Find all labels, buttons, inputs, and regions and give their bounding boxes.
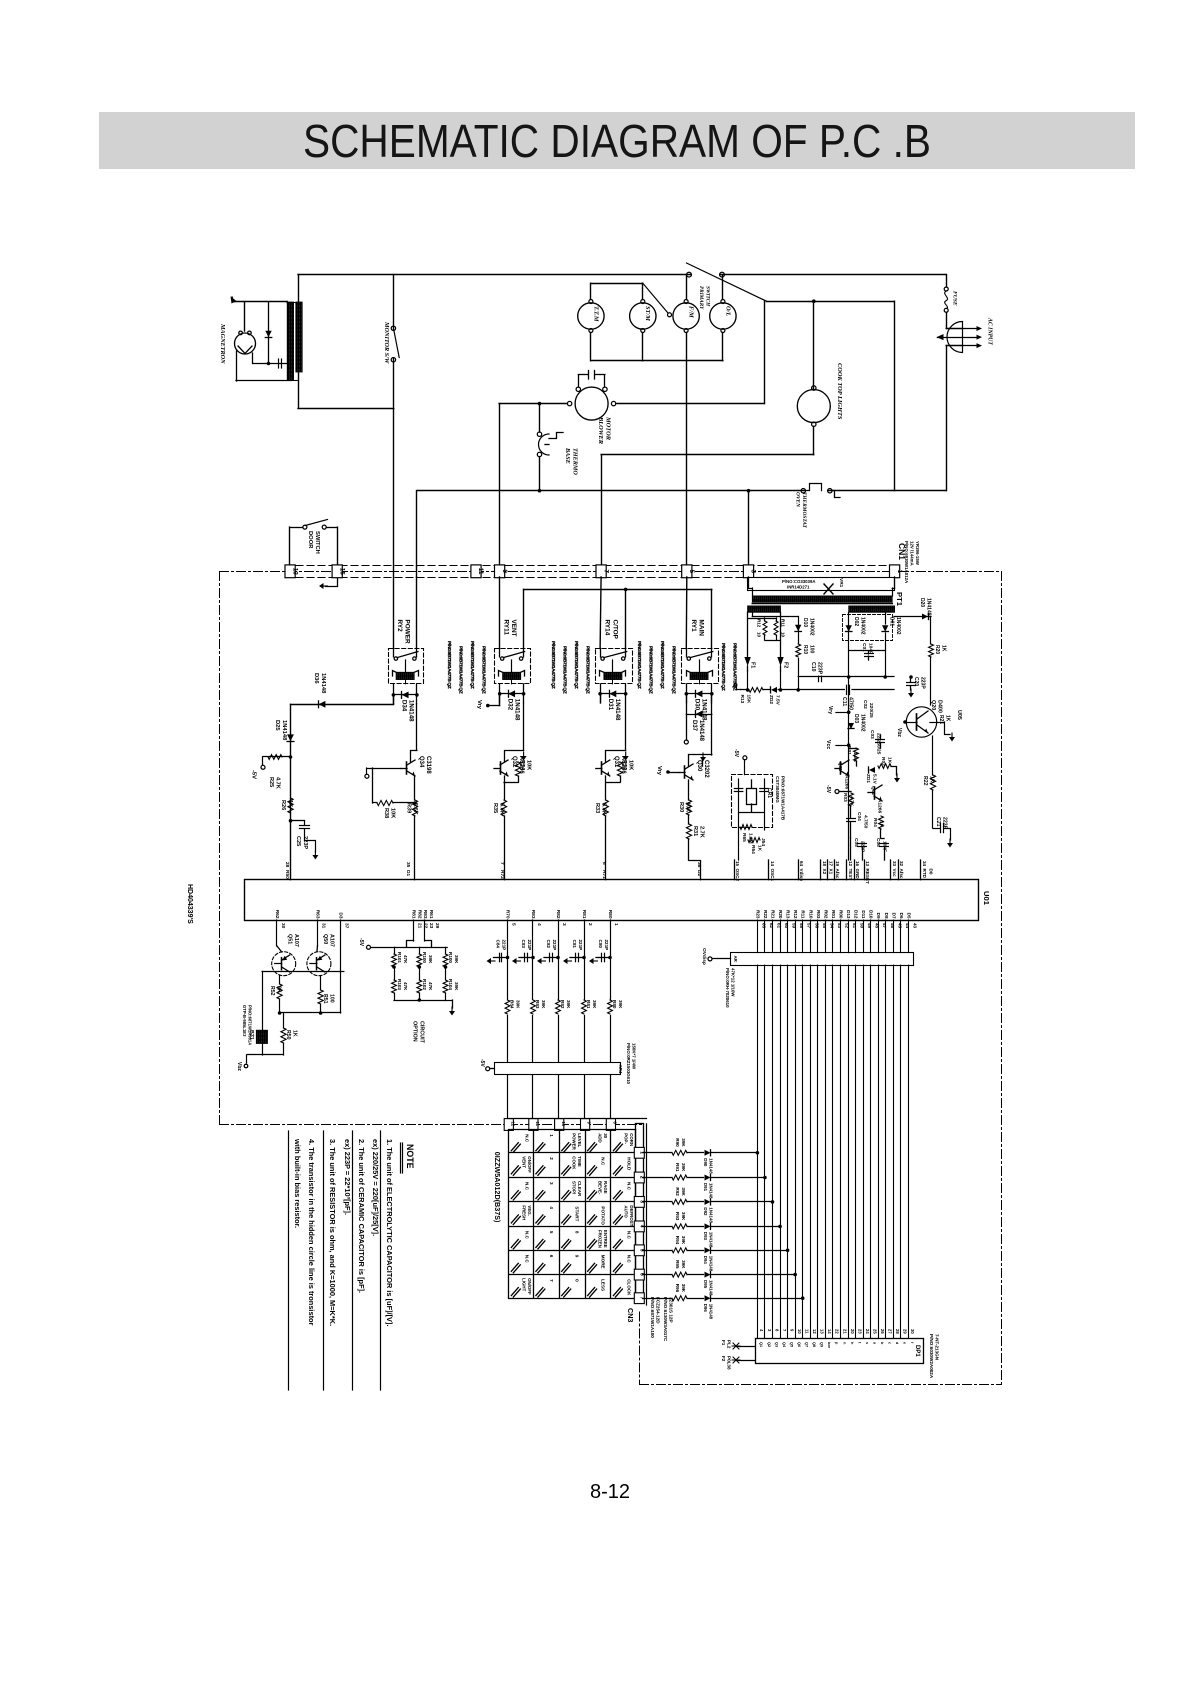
svg-text:C83: C83 xyxy=(521,940,526,949)
svg-text:30: 30 xyxy=(603,1133,608,1138)
svg-text:RAGE: RAGE xyxy=(603,1181,608,1194)
svg-text:47K: 47K xyxy=(403,955,408,964)
svg-text:N.C: N.C xyxy=(626,1255,631,1264)
svg-text:Q20: Q20 xyxy=(930,700,936,710)
svg-text:47K: 47K xyxy=(428,982,433,991)
svg-text:SWITCH: SWITCH xyxy=(705,286,711,307)
svg-text:1N4148: 1N4148 xyxy=(407,700,414,722)
svg-text:39K: 39K xyxy=(681,1260,686,1269)
svg-text:Q34: Q34 xyxy=(418,756,424,768)
svg-text:R102: R102 xyxy=(422,979,427,990)
svg-text:D10: D10 xyxy=(802,618,808,627)
svg-text:30: 30 xyxy=(910,1329,915,1334)
svg-text:FRESH: FRESH xyxy=(521,1205,526,1220)
svg-text:1K: 1K xyxy=(292,1030,298,1037)
svg-text:R20: R20 xyxy=(934,645,940,654)
svg-text:10: 10 xyxy=(781,632,786,638)
svg-text:Q1: Q1 xyxy=(759,1342,763,1347)
svg-text:R101: R101 xyxy=(397,952,402,963)
svg-text:CST3040MG: CST3040MG xyxy=(775,776,780,803)
svg-text:P/N0:6B71W1A477B QZ: P/N0:6B71W1A477B QZ xyxy=(469,641,475,689)
svg-text:12: 12 xyxy=(848,861,853,867)
svg-text:12: 12 xyxy=(812,1329,817,1334)
svg-text:R84: R84 xyxy=(510,1000,515,1009)
svg-text:11: 11 xyxy=(477,568,484,575)
svg-text:2K: 2K xyxy=(276,986,282,993)
svg-text:with built-in bias resistor.: with built-in bias resistor. xyxy=(293,1138,302,1228)
svg-text:T.T.M: T.T.M xyxy=(592,306,599,322)
svg-text:37: 37 xyxy=(344,923,350,929)
svg-text:ENTREE: ENTREE xyxy=(603,1230,608,1248)
svg-text:R35: R35 xyxy=(492,803,498,813)
svg-text:62: 62 xyxy=(769,923,774,929)
svg-text:R80: R80 xyxy=(612,1000,617,1009)
svg-text:12V /144mA: 12V /144mA xyxy=(910,541,915,566)
svg-text:LIGHT: LIGHT xyxy=(521,1278,526,1291)
svg-text:23: 23 xyxy=(428,923,434,929)
svg-text:-5V: -5V xyxy=(479,1059,485,1067)
svg-text:C11: C11 xyxy=(841,697,847,706)
svg-text:F1: F1 xyxy=(721,1340,726,1346)
svg-text:D37: D37 xyxy=(691,720,697,732)
svg-text:-5V: -5V xyxy=(251,770,257,779)
svg-text:Q02: Q02 xyxy=(870,786,876,795)
svg-text:3: 3 xyxy=(750,569,757,573)
svg-text:R80: R80 xyxy=(607,910,613,919)
svg-text:HOLD: HOLD xyxy=(626,1157,631,1171)
svg-text:1N4002: 1N4002 xyxy=(809,618,815,636)
svg-text:10K: 10K xyxy=(628,760,634,770)
svg-text:R82: R82 xyxy=(560,1000,565,1009)
svg-text:CIRCUIT: CIRCUIT xyxy=(419,1021,425,1044)
svg-text:Q6: Q6 xyxy=(797,1342,801,1347)
svg-text:11: 11 xyxy=(535,1122,540,1127)
svg-text:SCHEMATIC DIAGRAM OF P.C .B: SCHEMATIC DIAGRAM OF P.C .B xyxy=(303,115,931,167)
svg-text:C20: C20 xyxy=(913,677,919,686)
svg-text:R72: R72 xyxy=(499,870,505,879)
svg-text:Vbz: Vbz xyxy=(896,728,902,737)
svg-text:R83: R83 xyxy=(422,910,428,919)
svg-text:10K: 10K xyxy=(685,802,691,812)
svg-text:39K: 39K xyxy=(454,955,459,964)
svg-text:1N4148: 1N4148 xyxy=(709,1158,714,1174)
svg-text:P/N0:6B71W1A477B QZ: P/N0:6B71W1A477B QZ xyxy=(458,646,464,694)
svg-text:10: 10 xyxy=(561,1122,566,1127)
svg-text:ex) 223P = 22*10³[pF].: ex) 223P = 22*10³[pF]. xyxy=(343,1139,352,1215)
svg-text:2: 2 xyxy=(549,1157,554,1160)
svg-text:15: 15 xyxy=(735,861,740,867)
svg-text:D8: D8 xyxy=(884,913,889,919)
svg-text:R92: R92 xyxy=(675,1187,680,1196)
svg-text:R03: R03 xyxy=(842,793,848,802)
svg-text:P/NO:6871W1A100: P/NO:6871W1A100 xyxy=(650,1297,655,1338)
svg-text:ZD2: ZD2 xyxy=(768,695,774,704)
svg-text:FCZ254-12D: FCZ254-12D xyxy=(656,1297,661,1324)
svg-text:21: 21 xyxy=(417,923,423,929)
svg-text:1N4148: 1N4148 xyxy=(709,1304,714,1320)
svg-text:VEG.: VEG. xyxy=(527,1205,532,1216)
svg-text:5.6K: 5.6K xyxy=(499,803,505,815)
svg-text:P/N0:6B71W1A477B QZ: P/N0:6B71W1A477B QZ xyxy=(481,646,487,694)
svg-text:11: 11 xyxy=(805,1329,810,1334)
svg-text:39K: 39K xyxy=(681,1187,686,1196)
svg-text:R83: R83 xyxy=(535,1000,540,1009)
svg-text:N.C: N.C xyxy=(601,1157,606,1166)
svg-text:13: 13 xyxy=(865,861,870,867)
svg-text:5: 5 xyxy=(511,923,517,926)
svg-text:R82: R82 xyxy=(416,910,422,919)
svg-text:R02: R02 xyxy=(823,910,828,919)
svg-text:33: 33 xyxy=(892,861,897,867)
svg-text:Q30: Q30 xyxy=(696,760,702,772)
svg-text:34: 34 xyxy=(922,861,927,867)
svg-text:RY14: RY14 xyxy=(604,620,611,636)
svg-text:60: 60 xyxy=(784,923,789,929)
svg-text:R23: R23 xyxy=(755,910,760,919)
svg-text:1N4002: 1N4002 xyxy=(860,714,866,732)
svg-text:R93: R93 xyxy=(675,1212,680,1221)
svg-text:U01: U01 xyxy=(982,891,991,906)
svg-text:9: 9 xyxy=(575,1255,580,1258)
svg-text:CLEAR: CLEAR xyxy=(577,1181,582,1197)
svg-text:e: e xyxy=(903,1342,907,1344)
svg-text:26: 26 xyxy=(880,1329,885,1334)
svg-text:C10: C10 xyxy=(810,662,816,672)
svg-text:43: 43 xyxy=(912,923,917,929)
svg-text:C3198: C3198 xyxy=(425,756,431,774)
svg-text:1K: 1K xyxy=(929,776,935,783)
svg-text:ZD1: ZD1 xyxy=(865,774,871,783)
svg-text:RY2: RY2 xyxy=(396,620,403,633)
svg-text:Q3: Q3 xyxy=(774,1342,778,1347)
svg-text:F/M: F/M xyxy=(688,306,695,318)
svg-text:C06: C06 xyxy=(875,838,881,847)
svg-text:13: 13 xyxy=(291,568,298,576)
svg-text:Afsc: Afsc xyxy=(835,869,840,879)
svg-text:ON/OFF: ON/OFF xyxy=(527,1278,532,1295)
svg-text:13: 13 xyxy=(820,1329,825,1334)
svg-text:R10: R10 xyxy=(808,910,813,919)
svg-text:F2: F2 xyxy=(721,1356,726,1362)
svg-text:45: 45 xyxy=(897,923,902,929)
svg-text:Q8: Q8 xyxy=(812,1342,816,1347)
svg-text:s: s xyxy=(865,1342,869,1344)
svg-text:17: 17 xyxy=(829,861,834,867)
svg-text:R52: R52 xyxy=(269,986,275,996)
svg-text:R26: R26 xyxy=(280,800,286,810)
svg-text:R10: R10 xyxy=(802,645,808,654)
svg-text:RTD: RTD xyxy=(922,869,927,879)
svg-text:CLOCK: CLOCK xyxy=(626,1279,631,1296)
svg-text:2: 2 xyxy=(587,923,593,926)
svg-text:D11: D11 xyxy=(861,910,866,919)
svg-text:Q7: Q7 xyxy=(805,1342,809,1347)
svg-text:221P: 221P xyxy=(552,940,557,951)
svg-text:bor: bor xyxy=(827,1342,831,1349)
svg-text:6: 6 xyxy=(549,1255,554,1258)
svg-text:R90: R90 xyxy=(675,1138,680,1147)
svg-text:R31: R31 xyxy=(692,826,698,836)
svg-text:20: 20 xyxy=(850,1329,855,1334)
svg-text:D95: D95 xyxy=(703,1280,708,1289)
svg-text:THERMOSTAT: THERMOSTAT xyxy=(801,492,807,529)
svg-text:MOTOR: MOTOR xyxy=(605,416,612,441)
svg-text:R13: R13 xyxy=(786,910,791,919)
svg-text:Vry: Vry xyxy=(656,766,662,776)
svg-text:R63: R63 xyxy=(315,910,321,919)
svg-text:P/N0:6B71W1A477B QZ: P/N0:6B71W1A477B QZ xyxy=(573,641,579,689)
svg-text:1N4148: 1N4148 xyxy=(700,699,707,721)
svg-text:0: 0 xyxy=(575,1279,580,1282)
svg-text:39K: 39K xyxy=(618,1000,623,1009)
svg-text:P/N0:6B71W1A477B QZ: P/N0:6B71W1A477B QZ xyxy=(636,641,642,689)
svg-text:D92: D92 xyxy=(703,1207,708,1216)
svg-text:VENT: VENT xyxy=(521,1156,526,1168)
svg-text:R81: R81 xyxy=(581,910,587,919)
svg-text:C81: C81 xyxy=(572,940,577,949)
svg-text:29: 29 xyxy=(434,923,440,929)
svg-text:47K*12 1/10W: 47K*12 1/10W xyxy=(731,968,736,997)
svg-text:D30: D30 xyxy=(693,699,700,711)
svg-text:1N4002: 1N4002 xyxy=(860,617,866,635)
svg-text:14: 14 xyxy=(770,861,775,867)
svg-text:START: START xyxy=(575,1206,580,1221)
svg-text:49: 49 xyxy=(867,923,872,929)
svg-text:10: 10 xyxy=(797,1329,802,1334)
svg-text:Vry: Vry xyxy=(476,700,482,710)
svg-text:YR396-15W: YR396-15W xyxy=(915,541,920,566)
svg-text:39K: 39K xyxy=(681,1138,686,1147)
svg-text:4.7/50: 4.7/50 xyxy=(863,815,869,829)
svg-text:5.6K: 5.6K xyxy=(601,803,607,815)
svg-text:N.C: N.C xyxy=(626,1231,631,1240)
svg-text:C01: C01 xyxy=(861,643,867,652)
svg-text:D31: D31 xyxy=(607,699,614,711)
svg-text:MAIN: MAIN xyxy=(697,620,704,637)
svg-text:6: 6 xyxy=(601,862,607,865)
svg-text:R02: R02 xyxy=(880,757,886,766)
svg-text:D02: D02 xyxy=(853,617,859,626)
svg-text:PT1: PT1 xyxy=(895,592,904,607)
svg-text:12: 12 xyxy=(510,1122,515,1127)
svg-text:R64: R64 xyxy=(750,845,756,854)
svg-text:POP-: POP- xyxy=(623,1133,628,1144)
svg-text:29: 29 xyxy=(903,1329,908,1334)
svg-text:R32: R32 xyxy=(621,760,627,770)
svg-text:O/L: O/L xyxy=(724,306,731,316)
svg-text:R38: R38 xyxy=(383,808,389,818)
svg-text:AR: AR xyxy=(733,956,738,963)
svg-text:3: 3 xyxy=(561,923,567,926)
svg-text:1N4148: 1N4148 xyxy=(709,1256,714,1272)
svg-text:223P: 223P xyxy=(942,817,948,830)
svg-text:4: 4 xyxy=(549,1206,554,1209)
svg-text:MAGNETRON: MAGNETRON xyxy=(219,323,226,364)
svg-text:R50: R50 xyxy=(284,870,290,879)
svg-text:100: 100 xyxy=(329,994,335,1003)
svg-text:COOK TOP LIGHTS: COOK TOP LIGHTS xyxy=(836,363,843,420)
svg-text:D7: D7 xyxy=(891,913,896,919)
svg-text:1N4148: 1N4148 xyxy=(709,1232,714,1248)
svg-text:58: 58 xyxy=(799,923,804,929)
svg-text:1K: 1K xyxy=(941,645,947,652)
svg-text:5: 5 xyxy=(688,569,695,573)
svg-text:RY11: RY11 xyxy=(502,620,509,636)
svg-text:P/N0:6B71W1A477B QZ: P/N0:6B71W1A477B QZ xyxy=(585,646,591,694)
svg-text:Q4: Q4 xyxy=(782,1342,786,1348)
svg-text:C05: C05 xyxy=(853,838,859,847)
svg-text:GND: GND xyxy=(855,869,860,880)
svg-text:1.5K: 1.5K xyxy=(852,752,858,763)
svg-text:35: 35 xyxy=(405,862,411,868)
svg-text:C04: C04 xyxy=(856,812,862,821)
svg-text:63: 63 xyxy=(761,923,766,929)
svg-text:P/NO:CO33039A: P/NO:CO33039A xyxy=(782,579,815,584)
svg-text:D01: D01 xyxy=(889,617,895,626)
svg-text:R70: R70 xyxy=(505,910,511,919)
svg-text:223P: 223P xyxy=(817,662,823,675)
svg-text:INR14D271: INR14D271 xyxy=(787,585,810,590)
svg-text:P/NO:0RH-7020610: P/NO:0RH-7020610 xyxy=(725,968,730,1008)
svg-text:4. The transistor in the hidde: 4. The transistor in the hidden circle l… xyxy=(307,1139,316,1326)
svg-text:C82: C82 xyxy=(546,940,551,949)
svg-text:D10: D10 xyxy=(869,910,874,919)
svg-text:X1: X1 xyxy=(829,869,834,875)
svg-text:OVEN: OVEN xyxy=(795,492,801,508)
svg-text:1K: 1K xyxy=(879,821,885,828)
svg-text:AC INPUT: AC INPUT xyxy=(987,317,993,345)
svg-text:150K*7 1/4W: 150K*7 1/4W xyxy=(632,1043,637,1070)
svg-text:4: 4 xyxy=(536,923,542,926)
svg-text:C02: C02 xyxy=(862,700,868,709)
svg-text:Q01: Q01 xyxy=(837,762,843,771)
svg-text:R62: R62 xyxy=(274,910,280,919)
svg-text:R94: R94 xyxy=(675,1236,680,1245)
svg-text:LEVEL: LEVEL xyxy=(577,1133,582,1147)
svg-text:R103: R103 xyxy=(397,979,402,990)
svg-text:8: 8 xyxy=(575,1231,580,1234)
svg-text:R82: R82 xyxy=(555,910,561,919)
svg-text:P/NO:6871W1A901A: P/NO:6871W1A901A xyxy=(248,1005,253,1045)
svg-text:Vcc: Vcc xyxy=(892,869,897,878)
svg-text:22/250/25: 22/250/25 xyxy=(876,733,882,755)
svg-text:Q50: Q50 xyxy=(322,934,328,944)
svg-text:C03: C03 xyxy=(869,730,875,739)
svg-text:16: 16 xyxy=(855,861,860,867)
svg-text:47: 47 xyxy=(882,923,887,929)
svg-text:30: 30 xyxy=(280,923,286,929)
svg-text:OPTION: OPTION xyxy=(412,1021,418,1042)
svg-text:23: 23 xyxy=(857,1329,862,1334)
svg-text:1N4148: 1N4148 xyxy=(320,673,326,694)
svg-text:R91: R91 xyxy=(675,1163,680,1172)
svg-text:4.7K: 4.7K xyxy=(849,796,855,807)
svg-text:7.5V: 7.5V xyxy=(775,695,781,706)
svg-text:ON/OFF: ON/OFF xyxy=(527,1156,532,1173)
svg-text:1N4002: 1N4002 xyxy=(895,617,901,635)
svg-text:PL2: PL2 xyxy=(727,1340,732,1349)
svg-text:0IZZW5A012D(B37S): 0IZZW5A012D(B37S) xyxy=(493,1152,502,1223)
svg-text:223P: 223P xyxy=(302,836,308,849)
svg-text:BLOWER: BLOWER xyxy=(597,416,604,445)
svg-text:D13: D13 xyxy=(846,910,851,919)
svg-text:P/N0:6B71W1A477B QZ: P/N0:6B71W1A477B QZ xyxy=(550,641,556,689)
svg-text:R11: R11 xyxy=(781,619,786,628)
svg-text:POWER: POWER xyxy=(572,1133,577,1150)
svg-text:A107: A107 xyxy=(293,934,299,947)
svg-text:TIME: TIME xyxy=(577,1156,582,1167)
svg-text:N.C: N.C xyxy=(524,1231,529,1240)
svg-text:GTP-B-985L1E3: GTP-B-985L1E3 xyxy=(242,1005,247,1037)
svg-text:R11: R11 xyxy=(801,910,806,919)
svg-text:100: 100 xyxy=(809,645,815,654)
svg-text:CORN: CORN xyxy=(629,1133,634,1146)
svg-text:RY1: RY1 xyxy=(690,620,697,633)
svg-text:1K: 1K xyxy=(887,757,893,764)
svg-text:THERMO: THERMO xyxy=(572,448,579,475)
svg-text:64: 64 xyxy=(799,861,804,867)
svg-text:POTATO: POTATO xyxy=(601,1206,606,1225)
svg-text:P/N0:6B71W1A477B QZ: P/N0:6B71W1A477B QZ xyxy=(671,646,677,694)
svg-text:D12: D12 xyxy=(854,910,859,919)
svg-text:N.C: N.C xyxy=(524,1134,529,1143)
svg-text:1: 1 xyxy=(896,569,903,573)
svg-text:R03: R03 xyxy=(816,910,821,919)
svg-text:28: 28 xyxy=(895,1329,900,1334)
svg-text:R25: R25 xyxy=(268,777,274,787)
svg-text:D0: D0 xyxy=(929,869,934,875)
svg-text:221P: 221P xyxy=(578,940,583,951)
svg-text:D90: D90 xyxy=(703,1158,708,1167)
svg-text:R00: R00 xyxy=(838,910,843,919)
svg-text:P/N0:6B71W1A477B QZ: P/N0:6B71W1A477B QZ xyxy=(720,643,726,691)
svg-text:28: 28 xyxy=(284,862,290,868)
svg-text:5.6K: 5.6K xyxy=(412,803,418,815)
svg-text:RESET: RESET xyxy=(865,869,870,885)
svg-text:5: 5 xyxy=(549,1231,554,1234)
svg-text:53: 53 xyxy=(837,923,842,929)
svg-text:221P: 221P xyxy=(604,940,609,951)
svg-text:A1266: A1266 xyxy=(877,799,883,813)
svg-text:D36: D36 xyxy=(313,673,319,684)
svg-text:Vbz: Vbz xyxy=(236,1062,242,1071)
svg-text:221P: 221P xyxy=(527,940,532,951)
svg-text:C84: C84 xyxy=(496,940,501,949)
svg-text:R61: R61 xyxy=(428,910,434,919)
svg-text:ST/M: ST/M xyxy=(644,306,651,321)
svg-text:R12: R12 xyxy=(793,910,798,919)
svg-text:Vcc: Vcc xyxy=(825,740,831,749)
svg-text:7: 7 xyxy=(549,1279,554,1282)
svg-text:R96: R96 xyxy=(675,1284,680,1293)
svg-text:R01: R01 xyxy=(831,910,836,919)
svg-text:223P: 223P xyxy=(920,677,926,689)
svg-text:39K: 39K xyxy=(681,1236,686,1245)
svg-text:D400: D400 xyxy=(937,700,943,713)
svg-text:STOP/: STOP/ xyxy=(572,1181,577,1195)
svg-text:FROZEN: FROZEN xyxy=(598,1230,603,1248)
svg-text:HD404339'S: HD404339'S xyxy=(186,884,193,924)
svg-text:10K: 10K xyxy=(390,808,396,818)
svg-text:LESS: LESS xyxy=(601,1279,606,1291)
svg-text:5.1V: 5.1V xyxy=(872,774,878,785)
svg-text:MORE: MORE xyxy=(601,1255,606,1269)
svg-text:15K: 15K xyxy=(746,695,752,704)
svg-text:Q5: Q5 xyxy=(789,1342,793,1347)
svg-text:44: 44 xyxy=(905,923,910,929)
svg-text:NOTE: NOTE xyxy=(405,1144,415,1169)
svg-text:R04: R04 xyxy=(872,818,878,827)
